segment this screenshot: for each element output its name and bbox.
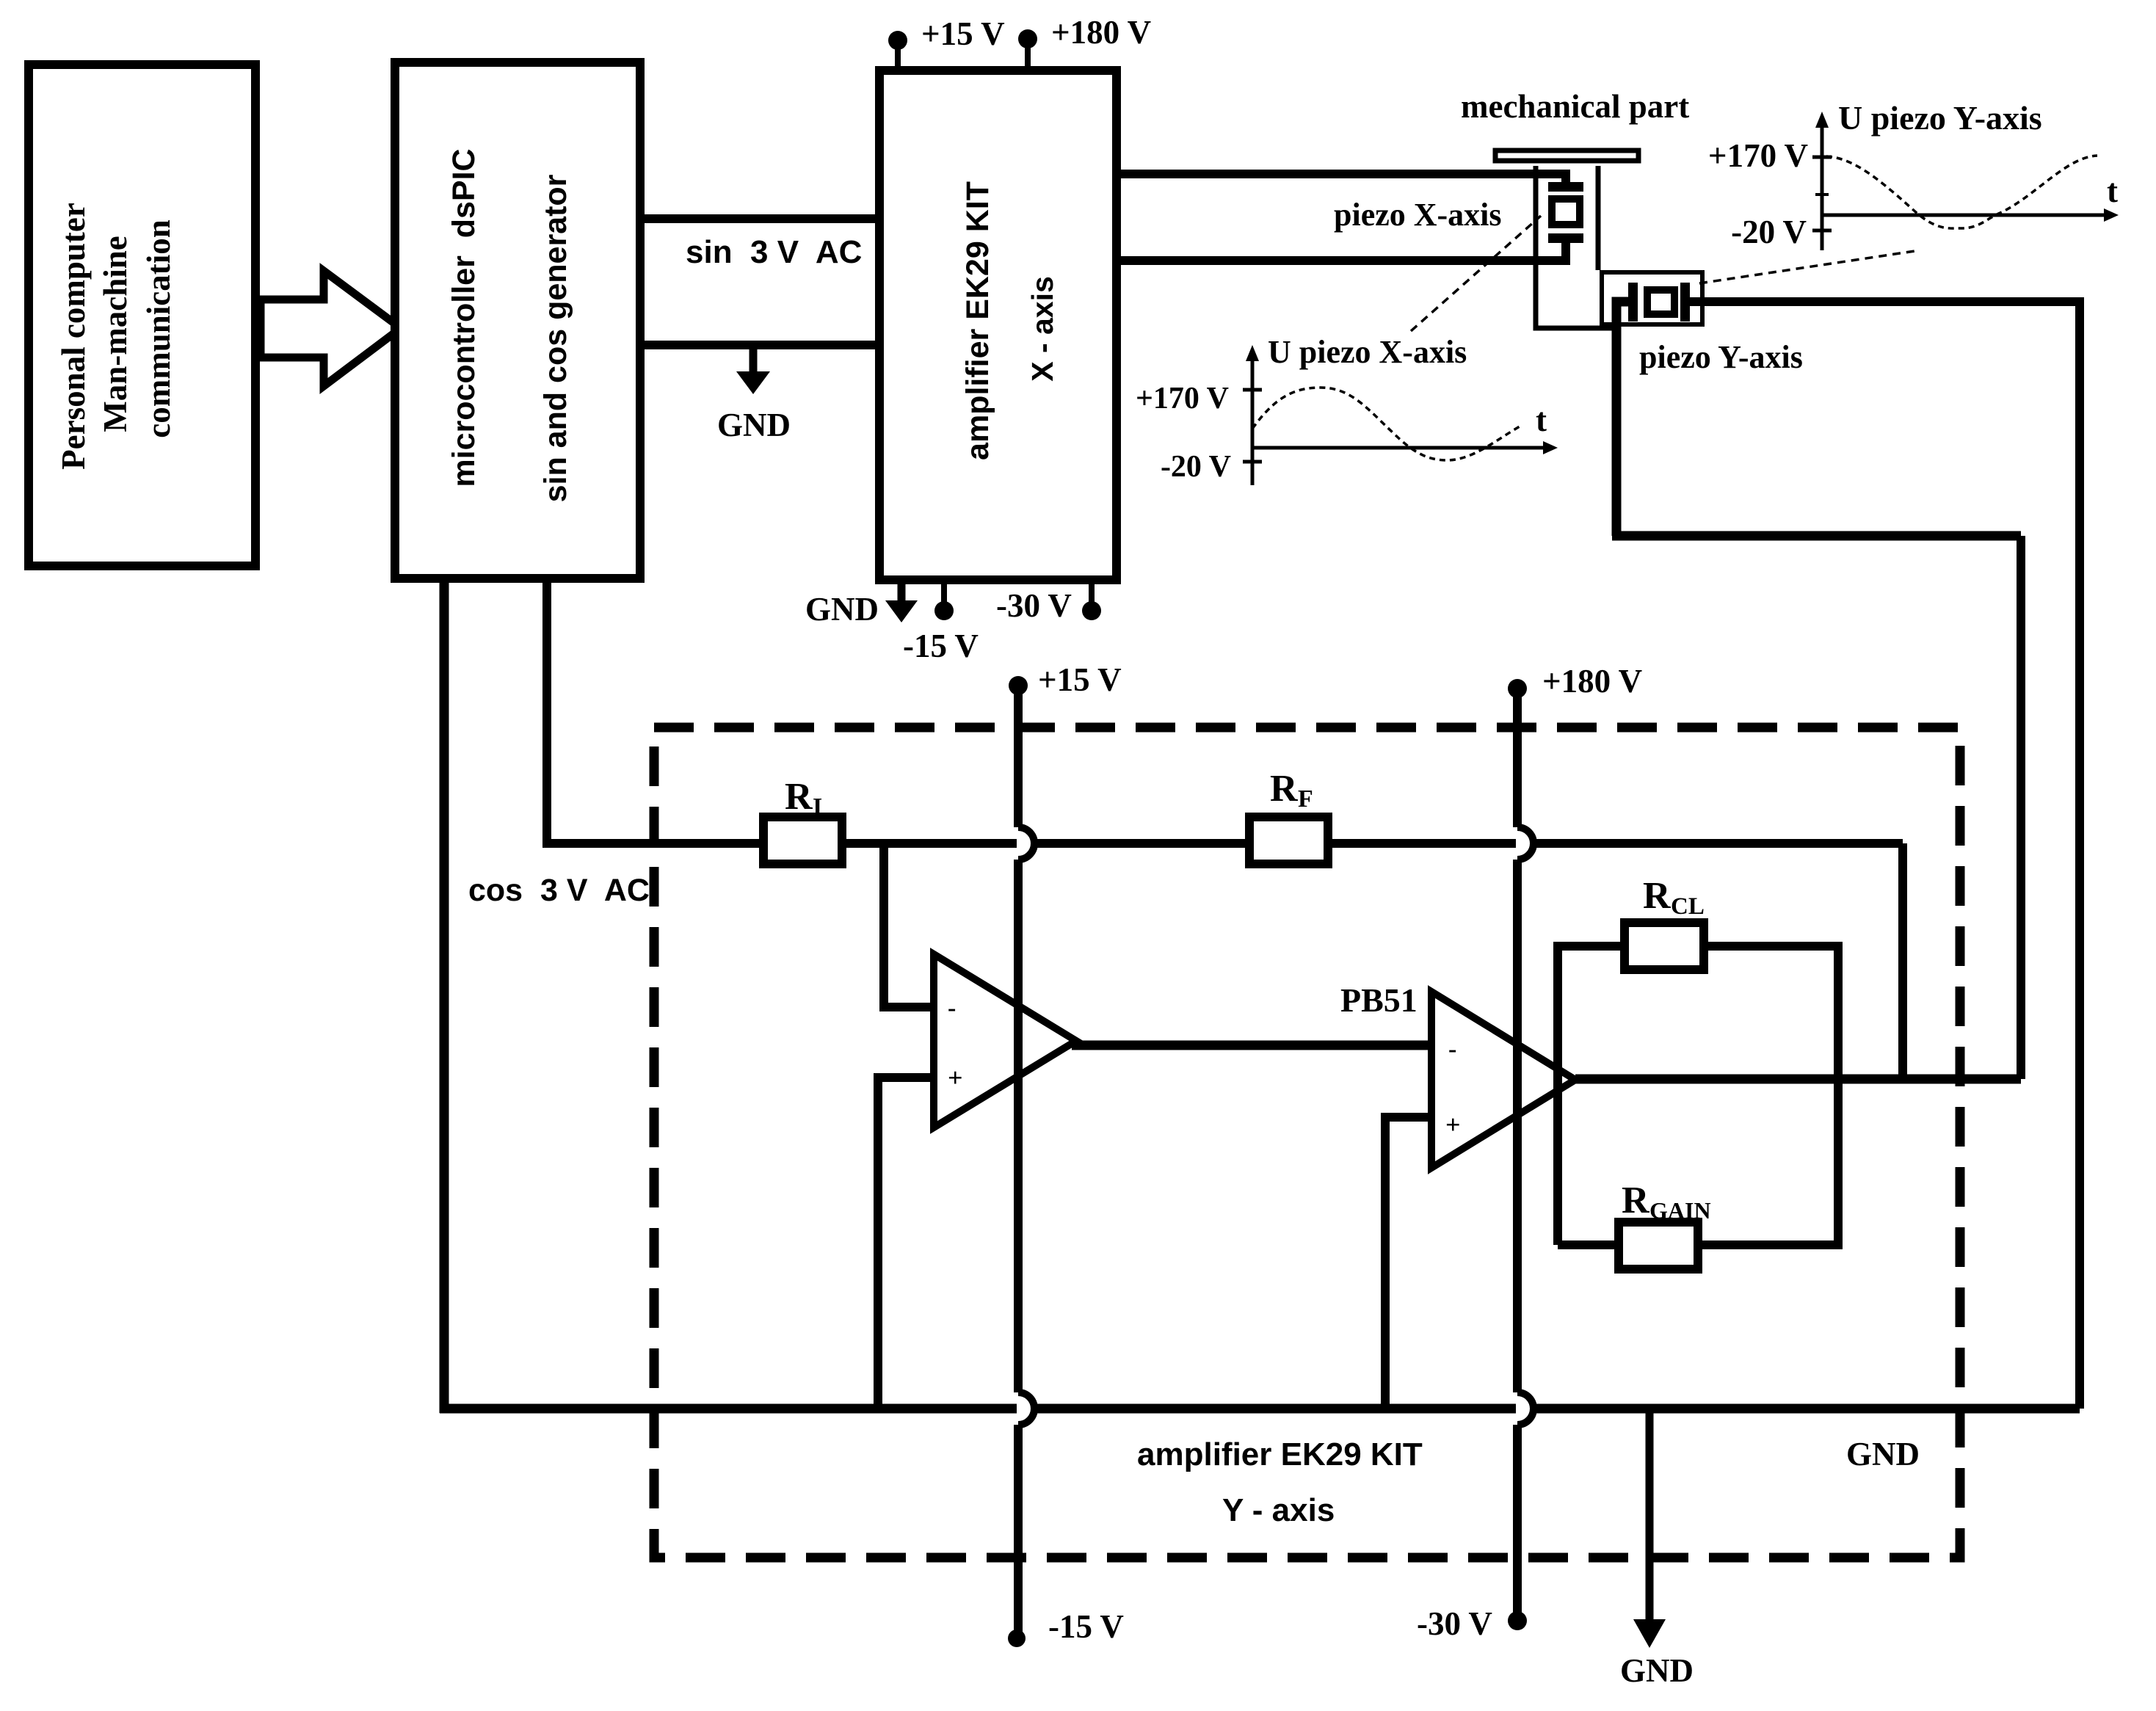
svg-text:R: R xyxy=(785,776,813,818)
piezo Y right wire to ground bus xyxy=(1690,302,2080,1409)
graph X labels xyxy=(1136,334,1547,484)
microcontroller box xyxy=(395,62,640,578)
svg-text:R: R xyxy=(1270,768,1299,810)
svg-text:GAIN: GAIN xyxy=(1649,1197,1711,1224)
svg-text:I: I xyxy=(813,793,822,821)
svg-text:+180 V: +180 V xyxy=(1051,14,1151,51)
cos 3 V AC label xyxy=(468,873,650,908)
graph X sine curve xyxy=(1252,388,1520,460)
+15 V terminal (X amp) xyxy=(888,15,1005,68)
svg-text:-15 V: -15 V xyxy=(903,628,979,664)
microcontroller right port / cos wire xyxy=(547,579,760,843)
PB51 output wire xyxy=(1575,1075,2021,1084)
svg-text:R: R xyxy=(1643,875,1672,917)
RCL label xyxy=(1643,875,1705,920)
amplifier EK29 KIT label (Y) xyxy=(1137,1436,1423,1472)
-30 V terminal (X amp bottom) xyxy=(996,580,1101,624)
graph Y labels xyxy=(1708,99,2118,250)
+15 V rail xyxy=(1018,686,1034,1638)
RGAIN label xyxy=(1622,1180,1711,1224)
svg-text:+15 V: +15 V xyxy=(921,15,1005,52)
piezo X lower wire xyxy=(1121,239,1566,265)
svg-text:PB51: PB51 xyxy=(1340,981,1418,1019)
svg-text:+15 V: +15 V xyxy=(1038,661,1122,698)
graph X axes xyxy=(1243,345,1558,485)
piezo Y left wire to loop xyxy=(1616,302,1628,536)
mechanical part label xyxy=(1461,88,1689,125)
-30 V bottom terminal xyxy=(1417,1605,1527,1642)
op-amp U1 output wire xyxy=(1072,1041,1431,1050)
svg-text:+180 V: +180 V xyxy=(1542,663,1642,700)
callout line to piezo Y xyxy=(1699,250,1920,283)
op-amp PB51 xyxy=(1431,992,1575,1168)
piezo X upper wire xyxy=(1121,170,1570,186)
piezo X top electrode xyxy=(1548,182,1583,192)
-15 V terminal (X amp bottom) xyxy=(903,580,979,664)
svg-text:cos 3 V AC: cos 3 V AC xyxy=(468,873,650,908)
svg-text:Man-machine: Man-machine xyxy=(97,236,134,432)
op-amp U1 xyxy=(934,954,1076,1127)
amplifier X box labels xyxy=(960,181,1059,460)
ground bus xyxy=(440,1404,2080,1414)
svg-text:mechanical part: mechanical part xyxy=(1461,88,1689,125)
svg-text:amplifier EK29 KIT: amplifier EK29 KIT xyxy=(1137,1436,1423,1472)
svg-text:t: t xyxy=(1536,402,1547,438)
Y - axis label xyxy=(1222,1492,1335,1528)
PB51 non-inverting input wire xyxy=(1385,1117,1431,1409)
svg-text:GND: GND xyxy=(805,591,879,628)
svg-text:CL: CL xyxy=(1671,893,1705,920)
+15 V top terminal xyxy=(1009,661,1122,698)
callout line to piezo X xyxy=(1411,216,1541,331)
resistor RF xyxy=(1249,817,1328,864)
svg-text:-: - xyxy=(1448,1036,1456,1063)
svg-text:piezo X-axis: piezo X-axis xyxy=(1334,197,1502,233)
frame line left (mechanical to piezo stage) xyxy=(1536,166,1619,328)
svg-text:-20 V: -20 V xyxy=(1731,214,1807,250)
RCL loop wires xyxy=(1558,946,1838,1245)
GND label (bottom) xyxy=(1620,1652,1694,1689)
piezo X crystal xyxy=(1552,199,1580,225)
mechanical part bar xyxy=(1495,150,1638,161)
piezo Y-axis label xyxy=(1639,339,1803,375)
svg-text:+170 V: +170 V xyxy=(1136,382,1229,415)
svg-text:+: + xyxy=(1445,1110,1461,1139)
op-amp U1 non-inverting input wire xyxy=(878,1078,934,1409)
svg-text:-15 V: -15 V xyxy=(1048,1608,1124,1645)
arrow PC to microcontroller xyxy=(261,271,401,386)
piezo X bottom electrode xyxy=(1548,233,1583,243)
-15 V bottom terminal xyxy=(1008,1608,1124,1647)
microcontroller left port wire xyxy=(440,579,449,1413)
svg-text:microcontroller dsPIC: microcontroller dsPIC xyxy=(446,148,482,487)
PC box label xyxy=(55,203,177,470)
output riser to piezo loop xyxy=(2017,536,2025,1079)
GND arrow terminal (X amp bottom) xyxy=(885,580,918,622)
+180 V top terminal xyxy=(1508,663,1642,700)
svg-text:sin 3 V AC: sin 3 V AC xyxy=(686,234,862,270)
PC box xyxy=(29,65,255,566)
GND arrow (bottom) xyxy=(1633,1413,1666,1648)
amplifier EK29 KIT X-axis box xyxy=(879,70,1117,580)
+180 V rail xyxy=(1517,689,1533,1621)
RF feedback corner wire xyxy=(1898,843,1907,1079)
svg-text:GND: GND xyxy=(1620,1652,1694,1689)
resistor RCL xyxy=(1625,923,1704,970)
svg-text:R: R xyxy=(1622,1180,1650,1221)
svg-text:GND: GND xyxy=(1846,1436,1920,1472)
branch to op-amp U1 inverting input xyxy=(884,843,934,1007)
svg-text:GND: GND xyxy=(717,407,791,443)
svg-text:piezo Y-axis: piezo Y-axis xyxy=(1639,339,1803,375)
graph Y axes xyxy=(1812,112,2119,250)
svg-text:+170 V: +170 V xyxy=(1708,137,1808,174)
piezo Y loop bottom wire xyxy=(1612,531,2021,541)
dashed box amplifier EK29 KIT Y-axis xyxy=(654,727,1960,1558)
svg-text:-: - xyxy=(948,995,956,1022)
svg-text:t: t xyxy=(2107,172,2118,209)
sin bus lower wire xyxy=(640,341,879,349)
GND arrow below sin bus xyxy=(736,345,770,394)
svg-text:Y - axis: Y - axis xyxy=(1222,1492,1335,1528)
svg-text:amplifier EK29 KIT: amplifier EK29 KIT xyxy=(960,181,995,460)
piezo Y crystal xyxy=(1647,290,1674,314)
frame line right (mechanical to piezo Y frame) xyxy=(1596,166,1601,270)
svg-text:F: F xyxy=(1298,785,1313,813)
PB51 label xyxy=(1340,981,1418,1019)
svg-text:U piezo X-axis: U piezo X-axis xyxy=(1268,334,1467,370)
+180 V terminal (X amp) xyxy=(1018,14,1151,68)
sin bus upper wire xyxy=(640,214,879,223)
svg-text:+: + xyxy=(948,1063,963,1092)
GND label below sin bus xyxy=(717,407,791,443)
piezo X-axis label xyxy=(1334,197,1502,233)
GND label (dashed box right) xyxy=(1846,1436,1920,1472)
svg-text:sin and cos generator: sin and cos generator xyxy=(538,174,573,502)
svg-text:-30 V: -30 V xyxy=(1417,1605,1492,1642)
piezo Y left electrode xyxy=(1628,283,1638,322)
resistor RGAIN xyxy=(1619,1222,1698,1269)
piezo Y right electrode xyxy=(1680,283,1690,322)
microcontroller box labels xyxy=(446,148,573,502)
resistor RI xyxy=(763,817,842,864)
GND label (X amp bottom) xyxy=(805,591,879,628)
RF label xyxy=(1270,768,1313,813)
RI label xyxy=(785,776,822,821)
svg-text:-20 V: -20 V xyxy=(1161,450,1231,484)
svg-text:U piezo Y-axis: U piezo Y-axis xyxy=(1838,99,2042,137)
graph Y sine curve xyxy=(1826,156,2097,228)
svg-text:Personal computer: Personal computer xyxy=(55,203,92,470)
svg-text:-30 V: -30 V xyxy=(996,587,1072,624)
svg-text:communication: communication xyxy=(140,219,177,438)
svg-text:X - axis: X - axis xyxy=(1026,276,1059,382)
piezo Y frame box xyxy=(1602,272,1702,324)
cos / feedback line across xyxy=(846,839,1903,848)
sin 3 V AC label xyxy=(686,234,862,270)
